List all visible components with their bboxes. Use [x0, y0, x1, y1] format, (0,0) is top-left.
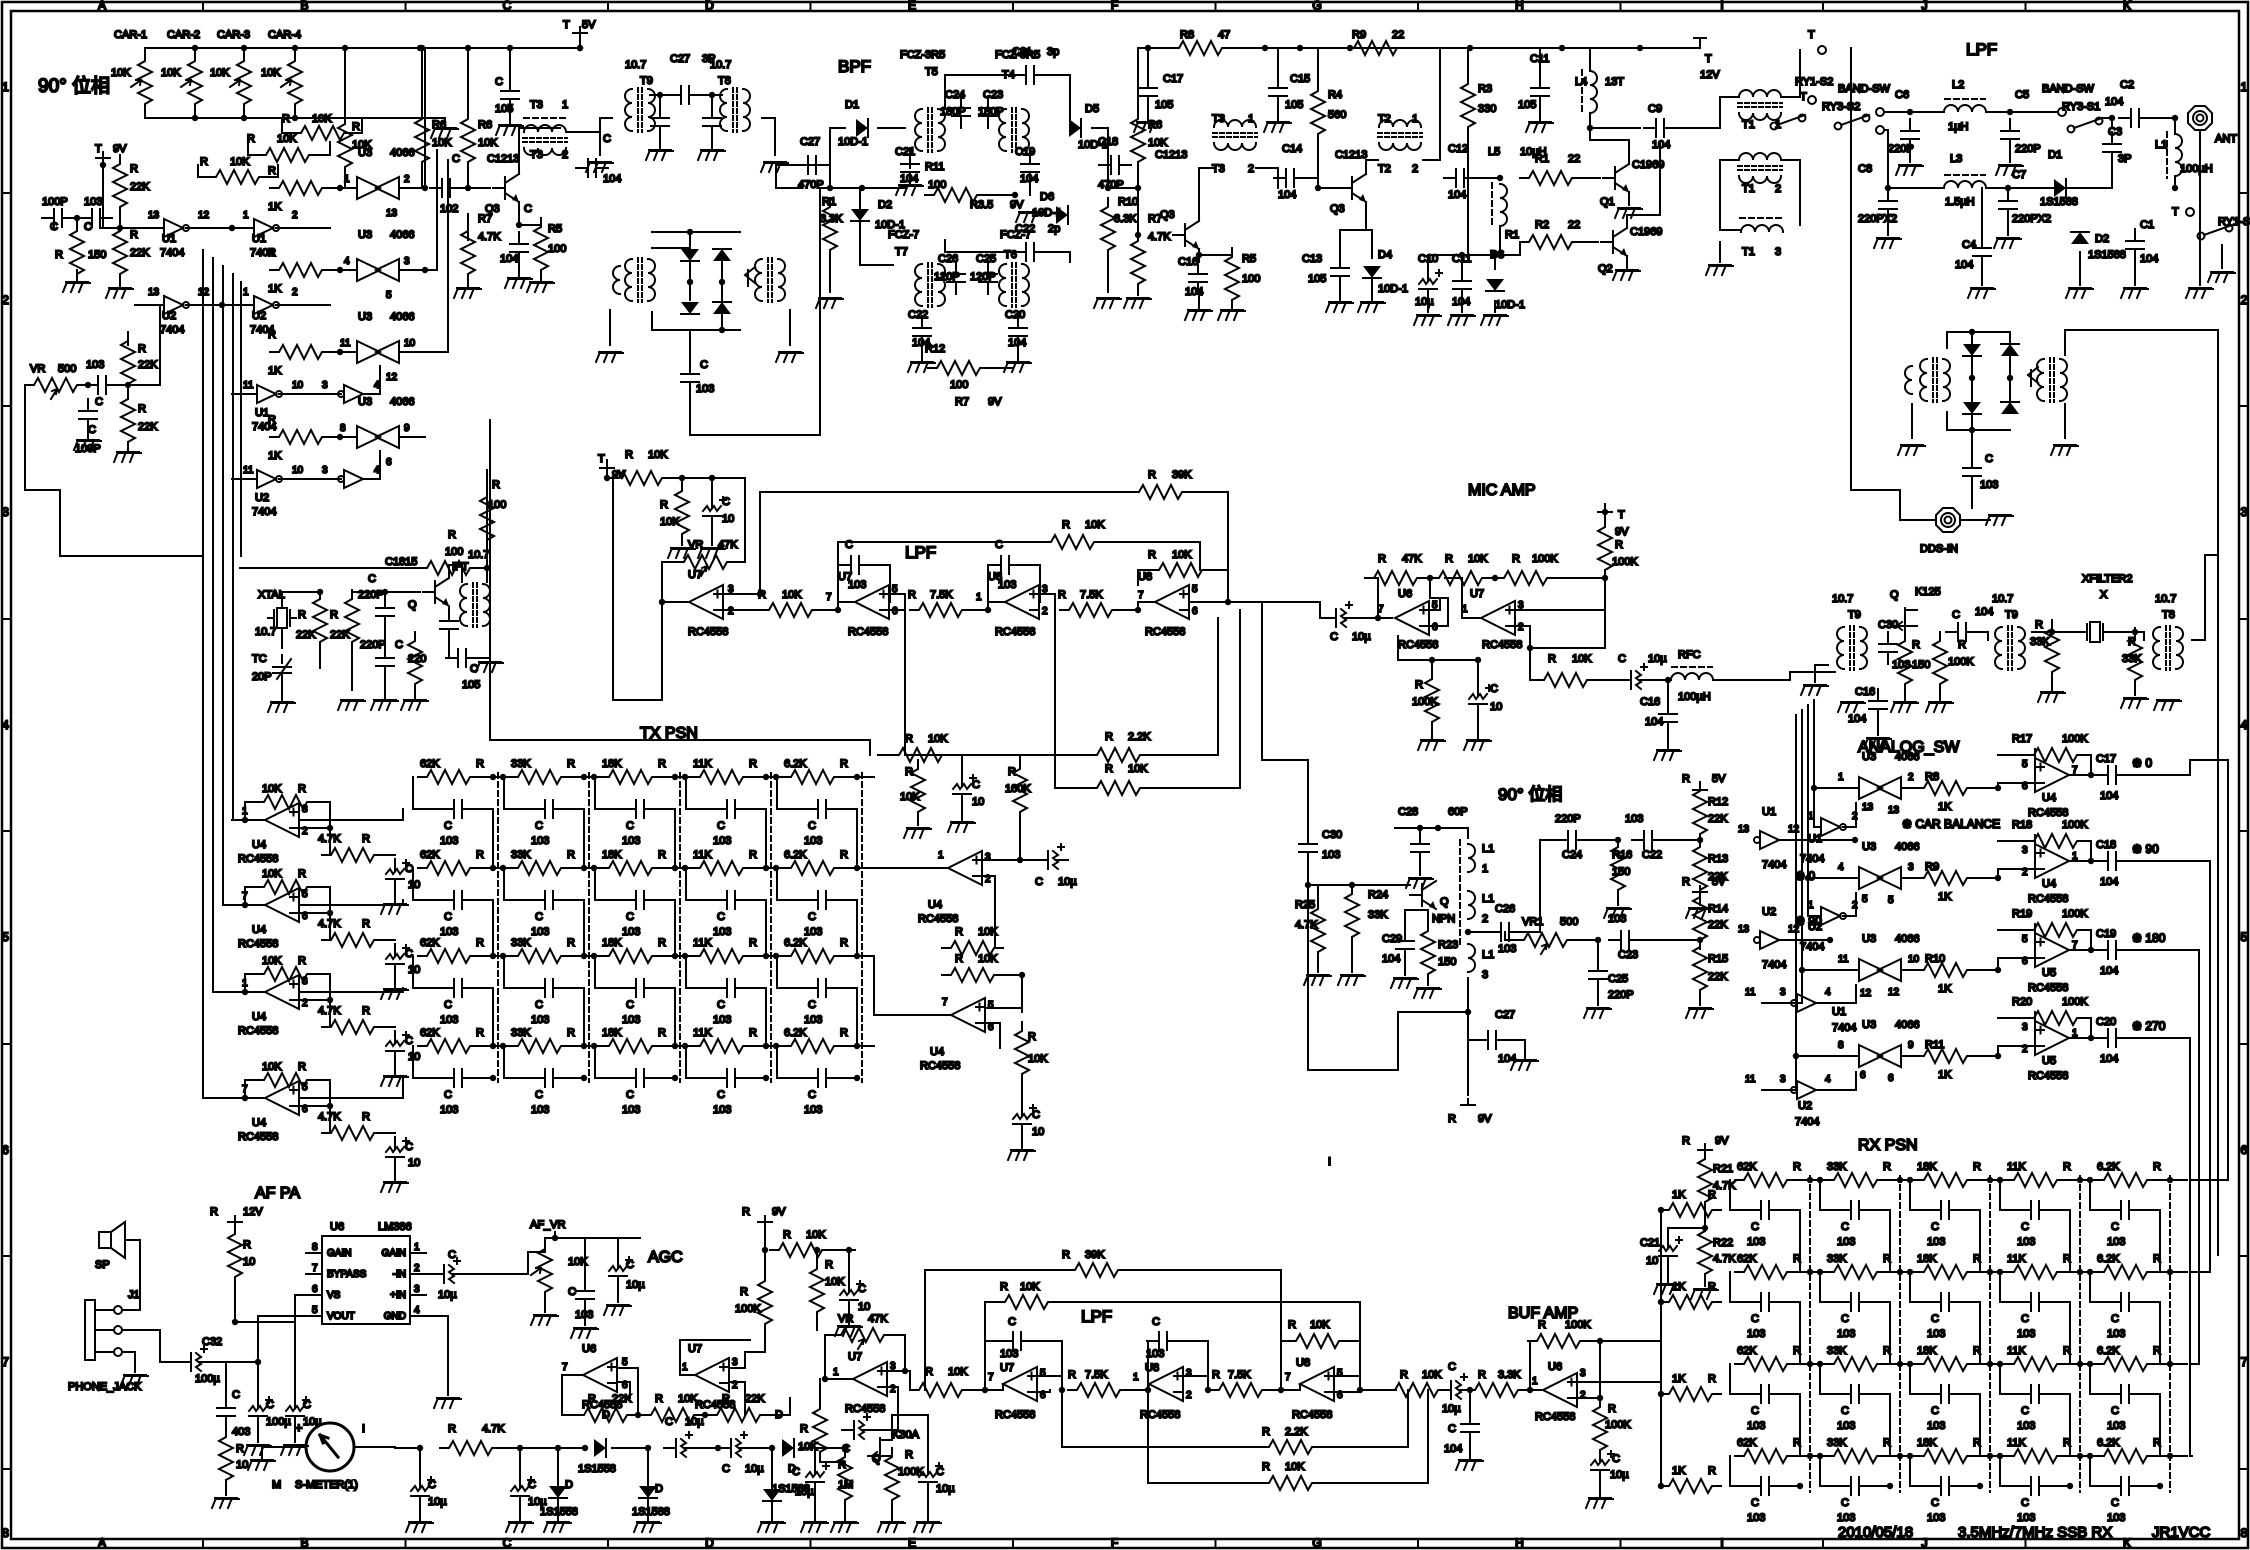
resistor R 10K [1430, 571, 1491, 585]
svg-text:10.7: 10.7 [2155, 593, 2176, 605]
svg-text:C: C [808, 1089, 816, 1101]
capacitor C 10u [1324, 609, 1356, 627]
junction [591, 774, 597, 780]
junction [1492, 252, 1498, 258]
junction [317, 589, 323, 595]
wire [2221, 245, 2223, 268]
wire BPF to amp [1108, 187, 1138, 189]
junction [507, 45, 513, 51]
svg-text:XTAL: XTAL [258, 589, 285, 601]
op-amp U8 RC4558 second [1155, 585, 1189, 619]
svg-text:C28: C28 [1398, 806, 1418, 818]
wire [554, 1232, 556, 1238]
svg-text:103: 103 [804, 1104, 822, 1116]
junction [672, 774, 678, 780]
capacitor C17 105 [1139, 76, 1157, 108]
wire [2007, 222, 2009, 235]
svg-text:500: 500 [1560, 916, 1578, 928]
wire [1911, 404, 1913, 438]
ground [74, 440, 101, 450]
resistor R 10K [292, 126, 353, 140]
wire [194, 112, 196, 118]
junction [1315, 185, 1321, 191]
wire [617, 1382, 630, 1398]
wire [1820, 1272, 1839, 1302]
ground [1326, 302, 1353, 312]
svg-text:10µ: 10µ [1442, 1403, 1461, 1415]
junction [1658, 1299, 1664, 1305]
svg-text:11: 11 [1745, 1074, 1756, 1085]
wire [1720, 160, 1740, 230]
wire [1871, 1301, 1890, 1303]
wire [982, 859, 1020, 861]
capacitor C 10u third [806, 1462, 824, 1494]
wire [1467, 978, 1469, 1012]
connector DDS-IN [1936, 508, 1960, 532]
svg-text:R: R [268, 165, 276, 177]
wire [1356, 617, 1392, 619]
wire [1148, 618, 1218, 755]
svg-text:7404: 7404 [160, 247, 184, 259]
svg-text:T2: T2 [1378, 163, 1391, 175]
capacitor C 10u buf2 [1591, 1450, 1609, 1482]
svg-text:104: 104 [2100, 790, 2118, 802]
svg-text:10: 10 [236, 1459, 248, 1471]
wire [394, 976, 396, 987]
svg-text:NPN: NPN [1432, 913, 1455, 925]
wire [2065, 1455, 2097, 1457]
svg-text:1S1588: 1S1588 [632, 1506, 670, 1518]
svg-text:18K: 18K [1917, 1161, 1937, 1173]
wire [721, 262, 723, 300]
junction [117, 225, 123, 231]
ground [121, 1375, 148, 1385]
svg-text:3: 3 [1580, 1368, 1586, 1379]
wire [1667, 1228, 1669, 1236]
wire [1667, 680, 1669, 702]
wire [892, 1415, 908, 1440]
svg-text:R: R [567, 1027, 575, 1039]
wire [1148, 610, 1240, 788]
svg-text:6: 6 [1432, 622, 1438, 633]
wire [382, 854, 395, 856]
wire [584, 1238, 586, 1279]
wire [2085, 755, 2091, 775]
svg-text:R: R [2063, 1345, 2071, 1357]
svg-text:T5: T5 [925, 66, 938, 78]
pin 8 [306, 1252, 322, 1254]
wire [486, 470, 488, 582]
svg-text:C3: C3 [2108, 126, 2122, 138]
wire [686, 956, 715, 988]
svg-text:104: 104 [1444, 1443, 1462, 1455]
junction [219, 302, 225, 308]
svg-text:102: 102 [440, 203, 458, 215]
grid tick right [2239, 830, 2248, 832]
wire [1442, 1389, 1446, 1391]
resistor R14 22K [1693, 888, 1707, 949]
lattice column dashed separator [2079, 1176, 2081, 1492]
core dash [1740, 217, 1784, 219]
svg-text:C: C [84, 221, 92, 233]
wire [1588, 839, 1618, 841]
wire [1469, 1444, 1471, 1458]
wire [315, 1080, 330, 1106]
svg-text:2.2K: 2.2K [1285, 1426, 1308, 1438]
svg-text:22K: 22K [130, 247, 150, 259]
junction [327, 910, 333, 916]
junction [604, 475, 610, 481]
wire [1597, 940, 1599, 958]
wire [1002, 975, 1022, 1012]
resistor R 4.7K [440, 1441, 501, 1455]
svg-text:DDS-IN: DDS-IN [1920, 543, 1958, 555]
wire [742, 609, 760, 611]
resistor R12 22K [1693, 782, 1707, 843]
junction [417, 45, 423, 51]
svg-text:R: R [1912, 639, 1920, 651]
svg-text:C: C [792, 1466, 800, 1478]
wire [569, 776, 601, 778]
svg-text:XFILTER2: XFILTER2 [2082, 573, 2133, 585]
svg-text:T: T [95, 143, 102, 155]
junction [192, 115, 198, 121]
svg-text:RFC: RFC [1678, 649, 1701, 661]
junction [1602, 575, 1608, 581]
wire [1628, 192, 1630, 205]
ground [476, 662, 503, 672]
wire [2051, 1485, 2070, 1487]
wire [1505, 932, 1515, 940]
lattice column dashed separator [497, 773, 499, 1082]
capacitor C 104 [510, 232, 528, 264]
ground [1898, 445, 1925, 455]
svg-text:T2: T2 [1378, 113, 1391, 125]
resistor R 1K [270, 181, 331, 195]
svg-text:R: R [55, 249, 63, 261]
resistor 1K RX PSN [1660, 1479, 1721, 1493]
resistor R25 4.7K [1311, 900, 1325, 961]
wire [80, 384, 88, 386]
svg-text:C: C [1841, 1497, 1849, 1509]
svg-text:104: 104 [1448, 189, 1466, 201]
resistor 62K RX PSN [1735, 1357, 1796, 1371]
svg-text:10K: 10K [161, 67, 181, 79]
wire [2159, 1394, 2161, 1456]
grid tick top [2025, 2, 2027, 11]
capacitor C21 3p [1014, 66, 1046, 84]
svg-text:103: 103 [1747, 1328, 1765, 1340]
svg-text:12: 12 [1888, 987, 1900, 998]
svg-text:103: 103 [804, 1014, 822, 1026]
wire [2009, 332, 2011, 344]
svg-text:C23: C23 [983, 89, 1003, 101]
wire [319, 643, 321, 668]
svg-text:R: R [1883, 1161, 1891, 1173]
svg-text:7404: 7404 [160, 324, 184, 336]
junction [682, 1043, 688, 1049]
resistor 18K TX PSN [600, 1039, 661, 1053]
wire inverter feed [1793, 970, 1802, 1003]
resistor R 39K [1130, 485, 1191, 499]
svg-text:7404: 7404 [1800, 941, 1824, 953]
resistor R11 100 [925, 188, 986, 202]
wire [1320, 1390, 1408, 1447]
svg-text:100K: 100K [1605, 1419, 1631, 1431]
svg-text:T8: T8 [2162, 609, 2175, 621]
svg-text:10K: 10K [1468, 553, 1488, 565]
junction [672, 1043, 678, 1049]
wire [257, 1428, 259, 1442]
transistor Q3 C1213 [1173, 221, 1199, 249]
junction [2005, 185, 2011, 191]
svg-text:RC4558: RC4558 [238, 853, 278, 865]
ground [646, 150, 673, 160]
wire [1021, 1136, 1023, 1148]
svg-text:U3: U3 [1862, 933, 1876, 945]
ground [454, 288, 481, 298]
wire [1445, 578, 1481, 618]
svg-text:103: 103 [2107, 1328, 2125, 1340]
junction [591, 865, 597, 871]
wire [1138, 602, 1155, 610]
ground [1691, 1289, 1718, 1299]
wire [1371, 278, 1373, 300]
svg-text:5: 5 [2, 930, 9, 944]
svg-text:RC4558: RC4558 [238, 1131, 278, 1143]
svg-text:100K: 100K [2062, 996, 2088, 1008]
svg-text:5V: 5V [1712, 773, 1726, 785]
svg-text:T9: T9 [1848, 609, 1861, 621]
junction [242, 1095, 248, 1101]
svg-text:R: R [1883, 1253, 1891, 1265]
wire [1978, 632, 1988, 640]
svg-text:RC4558: RC4558 [238, 1025, 278, 1037]
wire to mic amp [1215, 601, 1320, 603]
wire [2051, 1301, 2070, 1303]
junction [715, 1445, 721, 1451]
svg-text:C30: C30 [1878, 619, 1898, 631]
capacitor C 103 [1749, 1201, 1781, 1219]
svg-text:22K: 22K [130, 181, 150, 193]
svg-text:C: C [1448, 1361, 1456, 1373]
ground [114, 452, 141, 462]
capacitor C 220P [376, 596, 394, 628]
svg-text:3.3K: 3.3K [1498, 1369, 1521, 1381]
svg-text:U7: U7 [838, 571, 852, 583]
wire [1961, 1485, 1980, 1487]
meter M S-METER(1) [306, 1423, 354, 1471]
potentiometer CAR-1 10K [144, 59, 146, 61]
resistor R 10K [338, 115, 352, 176]
svg-text:104: 104 [603, 173, 621, 185]
svg-text:C: C [717, 999, 725, 1011]
wire [1815, 665, 1828, 682]
diode D4 10D-1 [1363, 266, 1381, 278]
junction [1665, 677, 1671, 683]
svg-text:7: 7 [826, 592, 832, 603]
ground [904, 828, 931, 838]
ground [1891, 702, 1918, 712]
capacitor C 103 [442, 891, 474, 909]
svg-text:100K: 100K [2062, 733, 2088, 745]
svg-text:5: 5 [1888, 895, 1894, 906]
transformer T8 [2153, 627, 2160, 669]
svg-text:11: 11 [243, 465, 254, 476]
resistor R 10 [219, 1428, 233, 1489]
wire [384, 628, 386, 645]
wire [723, 593, 760, 595]
svg-text:4066: 4066 [390, 229, 414, 241]
capacitor C 103 [533, 800, 565, 818]
svg-text:4: 4 [1838, 862, 1844, 873]
grid tick bottom [1620, 1539, 1622, 1548]
bus wire [212, 258, 214, 556]
wire [662, 562, 675, 602]
svg-text:7: 7 [312, 1263, 318, 1274]
wire [1779, 839, 1855, 841]
svg-text:Q2: Q2 [1598, 263, 1613, 275]
svg-text:R: R [476, 758, 484, 770]
capacitor C 103 [624, 979, 656, 997]
resistor R 100K [1495, 571, 1556, 585]
resistor R 100K buf2 [1593, 1398, 1607, 1459]
ground [1926, 702, 1953, 712]
svg-text:C1: C1 [2140, 219, 2154, 231]
ground [758, 1522, 785, 1532]
resistor R1 3.3K [823, 198, 837, 259]
terminal T [1808, 96, 1816, 104]
wire [258, 1316, 306, 1362]
svg-text:U3: U3 [358, 396, 372, 408]
wire [2051, 673, 2053, 690]
wire [245, 1080, 255, 1098]
connector ANT [2188, 106, 2212, 130]
svg-text:R: R [130, 163, 138, 175]
svg-text:4.7K: 4.7K [1713, 1180, 1736, 1192]
svg-text:RC4558: RC4558 [920, 1060, 960, 1072]
ground [1134, 122, 1161, 132]
svg-text:D1: D1 [2048, 149, 2062, 161]
wire [751, 867, 783, 869]
junction [1977, 1483, 1983, 1489]
wire [245, 974, 255, 992]
wire [213, 991, 232, 993]
lattice column dashed separator [1899, 1176, 1901, 1492]
wire [838, 542, 1042, 585]
svg-text:2: 2 [1518, 622, 1524, 633]
wire [518, 202, 520, 225]
wire [1979, 1210, 1981, 1272]
resistor R 100K [1598, 518, 1612, 579]
capacitor C 10 [953, 774, 971, 806]
wire [1427, 975, 1429, 985]
svg-text:R: R [905, 733, 913, 745]
svg-text:LPF: LPF [1966, 40, 1997, 59]
svg-text:C: C [535, 999, 543, 1011]
svg-text:9V: 9V [1478, 1113, 1492, 1125]
wire [1210, 570, 1228, 602]
svg-text:11K: 11K [693, 849, 712, 861]
wire [557, 1498, 559, 1520]
junction [490, 1075, 496, 1081]
transformer IFT [460, 584, 467, 626]
svg-text:1S1558: 1S1558 [578, 1463, 616, 1475]
grid tick top [1620, 2, 1622, 11]
svg-text:10µ: 10µ [745, 1463, 764, 1475]
wire [1500, 242, 1520, 255]
svg-text:6.2K: 6.2K [2097, 1437, 2120, 1449]
capacitor C29 104 [1396, 929, 1414, 961]
wire [1781, 1301, 1800, 1303]
resistor R 10K [1088, 781, 1149, 795]
wire [102, 162, 104, 228]
svg-text:U7: U7 [688, 1343, 702, 1355]
svg-text:R9: R9 [1352, 29, 1366, 41]
svg-text:U8: U8 [1138, 571, 1152, 583]
wire [394, 1030, 396, 1032]
junction [1497, 252, 1503, 258]
junction [1262, 45, 1268, 51]
svg-text:47K: 47K [1402, 553, 1422, 565]
wire [927, 1494, 929, 1520]
ground [1986, 515, 2013, 525]
svg-text:103: 103 [2107, 1512, 2125, 1524]
svg-text:U8: U8 [1296, 1357, 1310, 1369]
resistor R17 100K [2025, 748, 2086, 762]
svg-text:100µH: 100µH [2180, 163, 2213, 175]
junction [1885, 185, 1891, 191]
wire [1998, 1046, 2035, 1056]
wire [1762, 1089, 1793, 1091]
svg-text:1: 1 [938, 850, 944, 861]
resistor 6.2K RX PSN [2095, 1265, 2156, 1279]
capacitor C9 104 [1644, 119, 1676, 137]
ground [1526, 122, 1553, 132]
wire [1887, 222, 1889, 235]
svg-text:R: R [1062, 1249, 1070, 1261]
wire [1334, 1390, 1360, 1392]
wire [686, 868, 715, 900]
wire [1604, 570, 1606, 618]
svg-text:C: C [1931, 1313, 1939, 1325]
resistor R 22K [121, 390, 135, 451]
svg-text:R: R [298, 1061, 306, 1073]
junction [719, 327, 725, 333]
svg-text:10µ: 10µ [1415, 296, 1434, 308]
svg-text:R: R [1262, 1426, 1270, 1438]
ground [2038, 692, 2065, 702]
capacitor C 103 b2 [1147, 1332, 1179, 1350]
wire [1398, 636, 1478, 660]
wire [1046, 75, 1070, 128]
capacitor C17 104 [2096, 766, 2128, 784]
transformer T4 [999, 109, 1006, 151]
junction [2077, 1269, 2083, 1275]
wire [1975, 1055, 1998, 1057]
wire [1277, 48, 1279, 76]
wire [1467, 48, 1469, 75]
svg-text:560: 560 [1328, 109, 1346, 121]
capacitor C 102 [430, 179, 462, 197]
capacitor C 403 [217, 1396, 235, 1428]
svg-text:U3: U3 [1862, 841, 1876, 853]
svg-text:R10: R10 [1118, 196, 1138, 208]
svg-text:3: 3 [732, 1357, 738, 1368]
svg-text:1S1588: 1S1588 [2040, 196, 2078, 208]
svg-text:R: R [800, 1423, 808, 1435]
svg-text:C: C [1618, 653, 1626, 665]
